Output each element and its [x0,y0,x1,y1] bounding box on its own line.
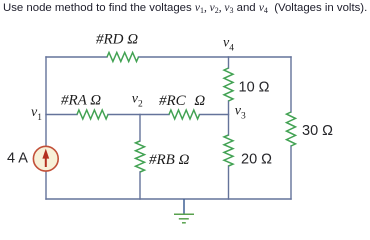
svg-text:#RD Ω: #RD Ω [96,32,138,48]
svg-text:v4: v4 [223,36,234,54]
svg-text:v3: v3 [235,104,246,122]
svg-text:v2: v2 [132,91,143,109]
svg-text:20 Ω: 20 Ω [241,152,272,168]
svg-text:#RC Ω: #RC Ω [159,93,205,109]
svg-text:#RA Ω: #RA Ω [61,93,101,109]
svg-text:30 Ω: 30 Ω [302,123,333,139]
svg-text:10 Ω: 10 Ω [239,80,270,96]
svg-text:v1: v1 [31,105,42,123]
svg-text:#RB Ω: #RB Ω [149,152,190,168]
svg-text:4 A: 4 A [7,151,28,167]
